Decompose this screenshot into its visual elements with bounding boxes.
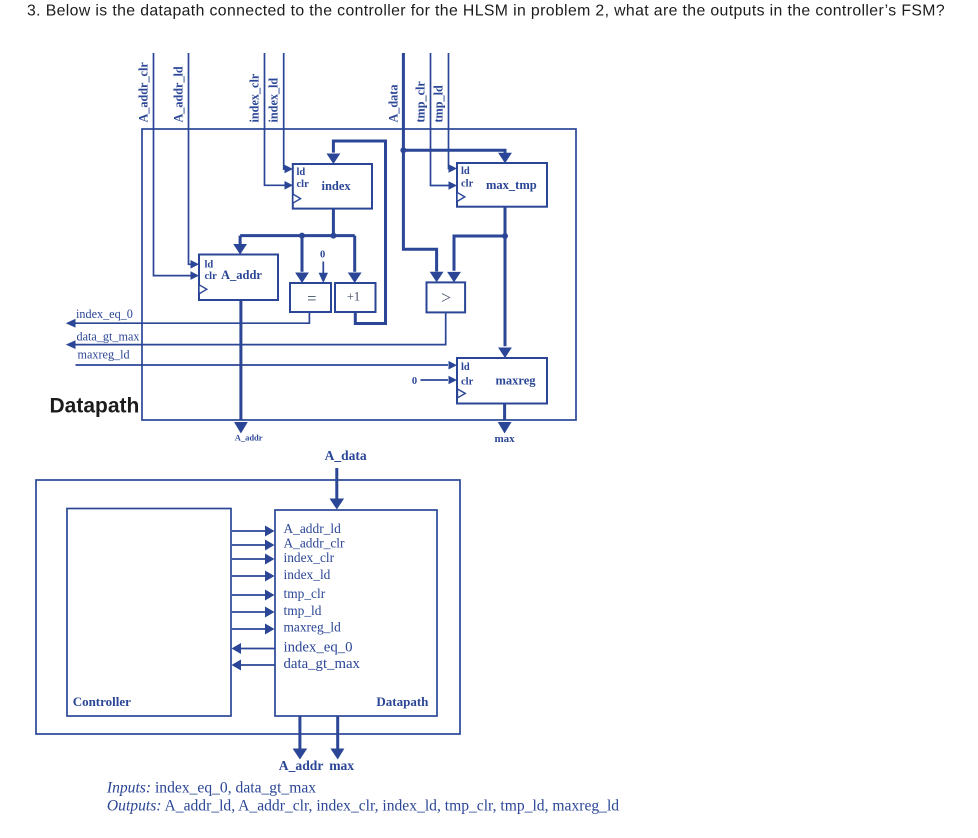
svg-text:clr: clr xyxy=(461,376,474,387)
svg-text:0: 0 xyxy=(412,376,417,387)
comparator = xyxy=(290,283,331,312)
wire max_tmp branch into > xyxy=(447,236,505,282)
svg-text:index_eq_0: index_eq_0 xyxy=(284,640,353,656)
wire ctrl tmp_ld xyxy=(232,607,275,618)
svg-text:tmp_ld: tmp_ld xyxy=(284,603,322,618)
wire +1 feedback loop to index xyxy=(327,141,386,324)
wire index_eq_0 from = output xyxy=(66,312,310,328)
svg-text:data_gt_max: data_gt_max xyxy=(77,330,140,344)
svg-text:Controller: Controller xyxy=(73,694,131,709)
svg-text:Outputs: A_addr_ld, A_addr_clr: Outputs: A_addr_ld, A_addr_clr, index_cl… xyxy=(107,798,619,815)
wire index_ld xyxy=(284,53,293,173)
junction node at = branch xyxy=(299,233,305,239)
wire into A_addr top xyxy=(233,236,247,255)
svg-text:+1: +1 xyxy=(347,289,360,303)
svg-text:index_eq_0: index_eq_0 xyxy=(76,307,133,321)
system enclosure box xyxy=(36,480,460,734)
svg-text:A_addr_clr: A_addr_clr xyxy=(284,536,346,551)
wire A_addr_clr xyxy=(154,53,200,280)
controller block xyxy=(67,509,231,717)
svg-text:max: max xyxy=(495,433,516,445)
svg-text:A_data: A_data xyxy=(325,448,367,463)
junction node max_tmp out xyxy=(502,233,508,239)
wire ctrl data_gt_max xyxy=(232,660,276,671)
wire into incrementer +1 xyxy=(348,236,362,283)
svg-text:Datapath: Datapath xyxy=(376,694,429,709)
wire A_data xyxy=(403,53,512,282)
register index xyxy=(293,164,372,209)
wire tmp_ld xyxy=(449,53,458,173)
incrementer +1 xyxy=(335,283,376,312)
svg-text:index_clr: index_clr xyxy=(248,73,262,122)
svg-text:maxreg: maxreg xyxy=(496,373,537,387)
wire ctrl index_clr xyxy=(232,554,275,565)
wire A_data into datapath block xyxy=(330,468,345,510)
register A_addr xyxy=(199,255,278,301)
comparator > xyxy=(427,282,466,312)
wire tmp_clr xyxy=(431,53,458,190)
wire maxreg_ld xyxy=(76,361,458,370)
svg-text:A_addr_ld: A_addr_ld xyxy=(172,66,186,122)
datapath enclosure box xyxy=(142,129,576,420)
wire ctrl A_addr_clr xyxy=(232,540,275,551)
wire max_tmp output to maxreg xyxy=(498,207,512,358)
wire data_gt_max from > output xyxy=(66,312,446,349)
svg-text:A_addr_clr: A_addr_clr xyxy=(137,62,151,123)
wire index_clr xyxy=(265,53,294,190)
svg-text:max: max xyxy=(329,758,354,773)
svg-text:maxreg_ld: maxreg_ld xyxy=(284,620,342,635)
junction A_data node xyxy=(400,147,406,153)
svg-text:ld: ld xyxy=(205,260,214,271)
svg-text:ld: ld xyxy=(297,167,306,178)
svg-text:A_addr_ld: A_addr_ld xyxy=(284,521,342,536)
wire ctrl tmp_clr xyxy=(232,590,275,601)
register max_tmp xyxy=(457,163,547,207)
svg-text:index_ld: index_ld xyxy=(284,567,331,582)
wire index bus horizontal xyxy=(240,234,355,237)
svg-text:ld: ld xyxy=(461,166,470,177)
svg-text:data_gt_max: data_gt_max xyxy=(284,656,361,672)
wire ctrl index_eq_0 xyxy=(232,643,276,654)
wire A_addr_ld xyxy=(189,53,200,269)
wire A_addr output (block) xyxy=(293,716,308,760)
wire into comparator = xyxy=(295,236,309,283)
svg-text:tmp_clr: tmp_clr xyxy=(284,586,326,601)
svg-text:index: index xyxy=(322,179,352,193)
register maxreg xyxy=(457,358,547,404)
svg-text:=: = xyxy=(307,289,316,308)
wire max output (block) xyxy=(330,716,344,760)
svg-text:A_data: A_data xyxy=(386,85,400,123)
wire maxreg output max xyxy=(498,404,512,434)
constant 0 into maxreg clr xyxy=(412,376,457,387)
svg-text:index_clr: index_clr xyxy=(284,550,335,565)
wire ctrl index_ld xyxy=(232,571,275,582)
svg-text:A_addr: A_addr xyxy=(279,758,324,773)
svg-text:3. Below is the datapath conne: 3. Below is the datapath connected to th… xyxy=(27,3,945,20)
svg-text:clr: clr xyxy=(297,179,310,190)
wire A_addr output xyxy=(234,300,248,434)
svg-text:maxreg_ld: maxreg_ld xyxy=(78,348,130,362)
wire index output xyxy=(332,209,335,236)
svg-text:Datapath: Datapath xyxy=(50,395,140,418)
svg-text:>: > xyxy=(441,287,451,307)
svg-text:clr: clr xyxy=(461,178,474,189)
junction node at index out xyxy=(330,233,336,239)
svg-text:0: 0 xyxy=(320,250,325,261)
svg-text:clr: clr xyxy=(205,271,218,282)
svg-text:tmp_clr: tmp_clr xyxy=(414,81,428,123)
svg-text:index_ld: index_ld xyxy=(267,78,281,123)
svg-text:Inputs: index_eq_0, data_gt_ma: Inputs: index_eq_0, data_gt_max xyxy=(106,780,316,797)
svg-text:max_tmp: max_tmp xyxy=(486,178,537,192)
datapath block xyxy=(275,510,437,716)
svg-text:tmp_ld: tmp_ld xyxy=(432,85,446,122)
svg-text:A_addr: A_addr xyxy=(221,268,262,282)
wire ctrl A_addr_ld xyxy=(232,526,275,537)
svg-text:ld: ld xyxy=(461,362,470,373)
wire ctrl maxreg_ld xyxy=(232,624,275,635)
constant 0 into = xyxy=(319,250,328,284)
svg-text:A_addr: A_addr xyxy=(235,433,263,443)
